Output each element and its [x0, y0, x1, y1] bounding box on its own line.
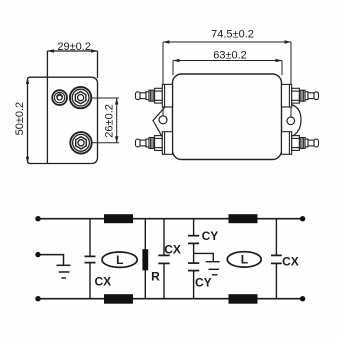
svg-text:63±0.2: 63±0.2 — [213, 50, 247, 62]
svg-text:50±0.2: 50±0.2 — [14, 102, 26, 136]
svg-text:CX: CX — [94, 274, 111, 288]
svg-text:L: L — [241, 253, 248, 267]
svg-text:R: R — [151, 269, 160, 283]
svg-text:CX: CX — [164, 243, 181, 257]
svg-text:29±0.2: 29±0.2 — [57, 41, 91, 53]
svg-text:L: L — [116, 253, 123, 267]
svg-text:74.5±0.2: 74.5±0.2 — [211, 29, 254, 41]
svg-text:CY: CY — [202, 229, 219, 243]
svg-text:CY: CY — [195, 276, 212, 290]
svg-text:CX: CX — [282, 254, 299, 268]
svg-text:26±0.2: 26±0.2 — [104, 104, 116, 138]
